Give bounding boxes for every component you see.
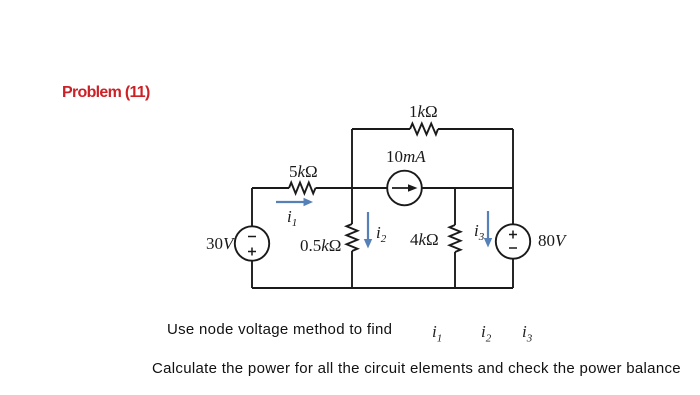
voltage source V1 30V [235, 226, 269, 260]
svg-text:i1: i1 [287, 207, 297, 229]
svg-text:4kΩ: 4kΩ [410, 230, 439, 249]
wire: top loop left vertical (node A up) [351, 129, 353, 188]
voltage source V2 80V [496, 224, 530, 258]
svg-text:0.5kΩ: 0.5kΩ [300, 236, 341, 255]
title Problem (11) [62, 84, 150, 102]
resistor R3 0.5k ohm (vertical) [347, 224, 358, 251]
minus sign inside 80V [509, 247, 517, 249]
i1 i2 i3 variables in text line [432, 322, 442, 344]
current arrow i1 (blue, rightward) [276, 201, 306, 203]
wire: right vertical above 80V source [512, 188, 514, 225]
resistor R1 1k ohm (top) [410, 124, 438, 135]
wire: 4k vertical bottom [454, 252, 456, 288]
resistor R2 5k ohm [289, 183, 316, 194]
wire: top horizontal left segment [352, 128, 410, 130]
svg-text:1kΩ: 1kΩ [409, 102, 438, 121]
text line 1 [167, 321, 392, 338]
arrow inside current source [392, 187, 411, 189]
wire: left vertical above 30V source [251, 188, 253, 227]
plus sign inside 80V [509, 231, 517, 239]
wire: middle vertical node A down to 0.5k resistor [351, 188, 353, 224]
minus sign inside 30V [248, 236, 256, 238]
svg-text:80V: 80V [538, 231, 568, 250]
wire: bottom horizontal [252, 287, 513, 289]
plus sign inside 30V [248, 248, 256, 256]
text line 2 [152, 360, 681, 377]
resistor R4 4k ohm (vertical) [450, 225, 461, 252]
wire: middle horizontal from left corner to 5k [252, 187, 289, 189]
wire: middle horizontal 5k to node A [316, 187, 388, 189]
svg-text:5kΩ: 5kΩ [289, 162, 318, 181]
wire: middle vertical 0.5k down to bottom [351, 251, 353, 288]
svg-text:i3: i3 [474, 221, 485, 243]
svg-text:30V: 30V [206, 234, 236, 253]
wire: middle horizontal current source to right vertical [422, 187, 513, 189]
svg-text:i2: i2 [376, 223, 387, 245]
current arrow i2 (blue, downward) [367, 212, 369, 241]
wire: right vertical below 80V source [512, 259, 514, 288]
current arrow i3 (blue, downward) [487, 211, 489, 240]
svg-text:10mA: 10mA [386, 147, 426, 166]
wire: 4k vertical top [454, 188, 456, 225]
wire: right vertical (top loop down to node B) [512, 129, 514, 188]
current source I1 10mA [387, 171, 422, 206]
wire: left vertical below 30V source [251, 261, 253, 288]
wire: top horizontal right segment [438, 128, 513, 130]
